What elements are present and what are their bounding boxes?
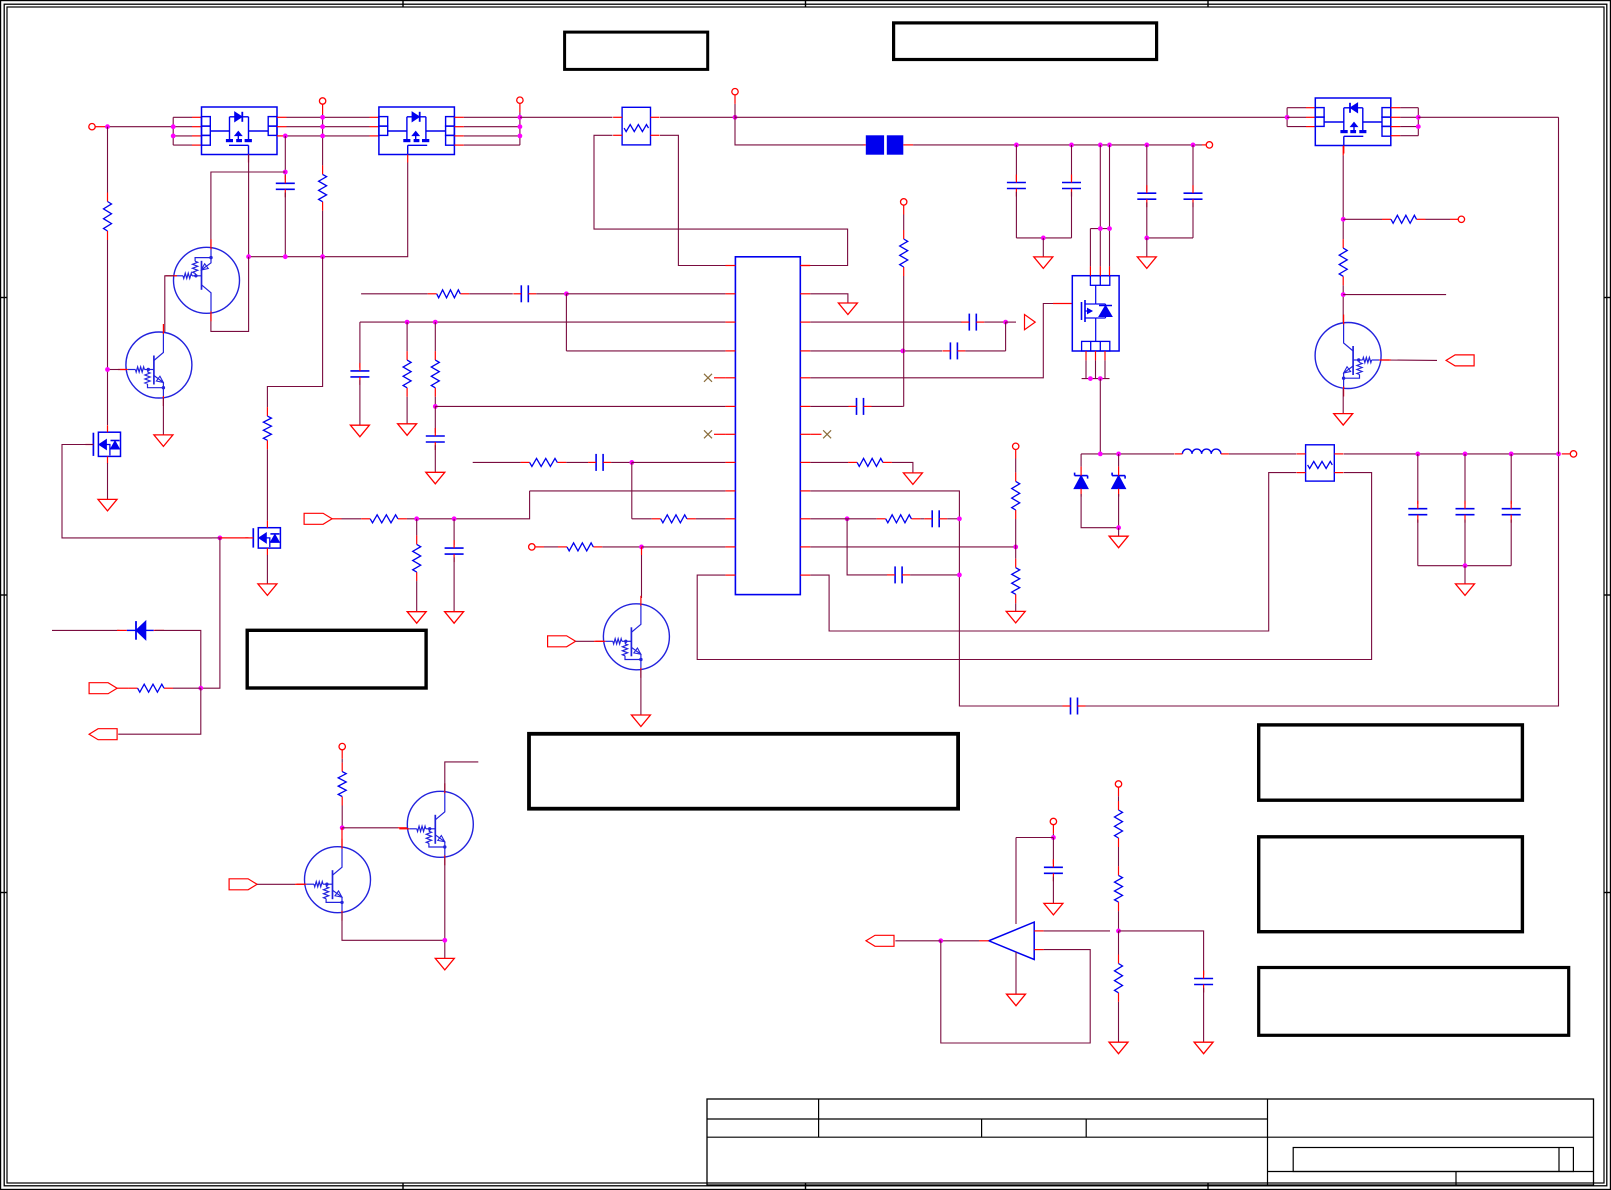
pin stub U1 L12 — [725, 574, 735, 576]
pin stub pkg2 R3 — [454, 135, 463, 137]
wire R19 right — [1426, 218, 1451, 220]
wire x903 mid — [903, 276, 905, 406]
ground R15 — [903, 473, 922, 485]
diode D1 — [117, 621, 164, 640]
wire R3 arrowlink — [1006, 321, 1016, 323]
junction row3 cap tap — [283, 134, 288, 139]
wire C7 gnd — [359, 380, 361, 425]
wire pkg3 right bracket — [1417, 108, 1419, 136]
junction comp out — [938, 938, 943, 943]
wire x903 upper — [903, 215, 905, 231]
wire R10 left — [632, 518, 652, 520]
wire pkg4 bot stub b — [1095, 360, 1097, 378]
capacitor C20 — [1044, 859, 1063, 881]
wire zener gnd stem — [1118, 528, 1120, 537]
pin stub pkg2 R2 — [454, 126, 463, 128]
ground Q6 — [1334, 414, 1353, 426]
junction node b — [1116, 452, 1121, 457]
wire pkg1 drain down — [248, 155, 250, 257]
junction capbus d — [1107, 143, 1112, 148]
ground Q5 — [631, 715, 650, 727]
junction pkg2r c — [518, 134, 523, 139]
wire input vertical lower — [107, 240, 109, 425]
capacitor C16 — [887, 566, 910, 583]
wire C20 gnd — [1052, 877, 1054, 904]
wire q6 base out — [1381, 359, 1437, 361]
pin stub U1 R7 — [800, 433, 810, 435]
wire L3 corner down — [359, 322, 361, 368]
wire C12 out — [965, 350, 1005, 352]
pin stub U1 R9 — [800, 490, 810, 492]
wire R7 top — [406, 322, 408, 351]
wire capgnd rail1 — [1016, 237, 1071, 239]
connector comp out — [866, 935, 894, 946]
junction L8 node — [629, 460, 634, 465]
pin stub Q6 base — [1381, 359, 1390, 361]
wire pkg4 top rail — [1090, 228, 1109, 230]
ground C21 — [1194, 1042, 1213, 1054]
junction pkg1r b — [320, 124, 325, 129]
wire pkg2 out row 4 — [464, 144, 520, 146]
wire comp nin — [1044, 930, 1110, 932]
wire pkg3 L row3 — [1287, 126, 1306, 128]
wire Q3 base — [257, 883, 295, 885]
capacitor C5 — [1184, 185, 1203, 207]
label box 5 (bottom right, empty) — [1259, 968, 1569, 1036]
wire comp cap drop — [1052, 838, 1054, 865]
wire EN to R11 — [342, 518, 362, 520]
resistor R18 — [1012, 559, 1020, 604]
wire node rail — [1081, 453, 1174, 455]
pin stub comp inv — [1034, 949, 1043, 951]
wire L2 to pin — [566, 293, 725, 295]
pin stub Q4 base — [398, 827, 407, 829]
pin stub Q5 base — [594, 640, 603, 642]
resistor R3 — [263, 407, 271, 449]
wire net L12 — [697, 473, 1371, 660]
pin stub U1 R3 — [800, 321, 810, 323]
wire C8 link — [434, 406, 436, 432]
wire vout cap rail — [1418, 565, 1511, 567]
junction R4 x903 — [901, 349, 906, 354]
wire comp vcc run — [1016, 837, 1053, 839]
wire pkg4 feed a — [1099, 145, 1101, 229]
pin stub FET2 gate — [220, 537, 249, 539]
junction node a — [1098, 452, 1103, 457]
ground comparator — [1007, 994, 1026, 1006]
wire pkg4 feed b — [1109, 145, 1111, 229]
pin stub Q1 base — [174, 275, 177, 277]
junction rail1 gnd — [1041, 236, 1046, 241]
wire net L8 — [473, 461, 521, 463]
wire capC4 top — [1146, 145, 1148, 191]
wire net L6 — [435, 405, 725, 407]
wire C1 bottom — [284, 193, 286, 257]
wire ind out — [1229, 453, 1296, 455]
wire rail1 stem — [1042, 238, 1044, 257]
pin stub pkg3 L1 — [1306, 107, 1315, 109]
junction vout a — [1415, 452, 1420, 457]
pin stub pkg2 L1 — [370, 116, 379, 118]
pin stub pkg3 L3 — [1306, 126, 1315, 128]
wire R12 top — [416, 519, 418, 536]
resistor R15 — [848, 458, 892, 466]
pin stub pkg2 R1 — [454, 116, 463, 118]
label box 1 (left mid, empty) — [247, 630, 426, 688]
junction pkg4 brail b — [1098, 376, 1103, 381]
pin stub pkg4 gate — [1053, 303, 1072, 305]
junction pkg4 rail a — [1098, 226, 1103, 231]
wire R10 branch down — [847, 519, 887, 575]
wire net L2 — [361, 293, 428, 295]
pin stub pkg1 L2 — [192, 126, 202, 128]
label box (top right, empty) — [894, 23, 1157, 60]
junction rail2 gnd — [1144, 236, 1149, 241]
pin stub U1 R11 — [800, 546, 810, 548]
resistor R23 — [1115, 955, 1123, 1002]
junction vout d — [1556, 452, 1561, 457]
pin stub pkg2 L2 — [370, 126, 379, 128]
junction capbus c — [1098, 143, 1103, 148]
comparator U2 — [989, 922, 1034, 959]
pkg4 internal mosfet — [1082, 285, 1113, 341]
wire bus to pkg3 — [735, 116, 1287, 118]
wire zener rail — [1081, 494, 1119, 528]
wire pkg3 R row2 — [1400, 116, 1418, 118]
connector Q6 base — [1446, 355, 1474, 366]
wire net L9 — [530, 490, 726, 492]
wire L8 down — [631, 462, 633, 518]
capacitor C13 — [849, 398, 872, 415]
wire net R9pin — [810, 491, 1062, 706]
resistor R1 — [104, 193, 112, 241]
dual P-MOSFET package Q10 — [1315, 98, 1391, 154]
junction gatebus b — [283, 254, 288, 259]
wire capC3 top — [1071, 145, 1073, 180]
ground vout caps — [1456, 584, 1475, 596]
wire pkg1-pkg2 row 1 — [287, 116, 370, 118]
connector Q3 base — [229, 879, 257, 890]
pin stub IC R1 — [800, 265, 810, 267]
junction pkg1 bracket a — [171, 124, 176, 129]
wire capC2 top — [1015, 145, 1017, 180]
wire vout gnd stem — [1464, 566, 1466, 584]
resistor R4 — [129, 684, 173, 692]
resistor R9 — [521, 458, 567, 466]
pin stub pkg1 L4 — [192, 144, 202, 146]
junction R10 node — [845, 516, 850, 521]
resistor R11 — [361, 515, 407, 523]
junction C1/Q1 node — [283, 170, 288, 175]
no-connect X L5 — [704, 374, 712, 382]
junction vout rail — [1463, 563, 1468, 568]
wire pkg3 R row4 — [1400, 135, 1418, 137]
junction R3 node — [1003, 320, 1008, 325]
wire net R11pin — [810, 546, 1015, 548]
capacitor C8 — [426, 428, 445, 450]
capacitor C21 — [1194, 971, 1213, 993]
pin stub U1 R5 — [800, 377, 810, 379]
wire gate node down — [201, 538, 220, 688]
dual P-MOSFET package Q1A — [202, 107, 278, 163]
junction pkg4 rail b — [1107, 226, 1112, 231]
junction capbus f — [1191, 143, 1196, 148]
junction q6 chain a — [1341, 217, 1346, 222]
pin stub pkg4 top c — [1109, 266, 1111, 275]
junction div2 mid — [1116, 929, 1121, 934]
pin stub U1 L5 — [725, 377, 735, 379]
junction pkg1r a — [320, 115, 325, 120]
junction gatebus a — [246, 254, 251, 259]
wire net R3 — [810, 321, 962, 323]
resistor R12 — [413, 535, 421, 581]
pkg4 bottom pinbox — [1082, 341, 1110, 351]
pin stub conn A — [117, 687, 129, 689]
junction pkg3r a — [1416, 115, 1421, 120]
pin stub U1 L11 — [725, 546, 735, 548]
wire R5 to dot — [341, 806, 343, 828]
wire L8 to pin — [632, 461, 726, 463]
pin stub U1 L10 — [725, 518, 735, 520]
wire R10pin — [810, 518, 876, 520]
wire pkg3 drain lower — [1342, 285, 1344, 322]
wire fuse sense left — [594, 135, 848, 265]
wire node to conn B — [118, 688, 201, 734]
resistor R14 — [900, 230, 908, 276]
offpage output pointer — [1025, 315, 1036, 330]
wire input vertical upper — [107, 127, 109, 193]
wire net L3 — [360, 321, 726, 323]
pin noconnect L7 wire — [714, 433, 725, 435]
label box 4 (right, empty) — [1259, 837, 1523, 932]
ground div2 — [1109, 1042, 1128, 1054]
ground zeners — [1109, 536, 1128, 548]
pin stub pkg3 R2 — [1391, 116, 1400, 118]
dual P-MOSFET package Q2A — [379, 107, 455, 163]
wire R15 link — [810, 461, 848, 463]
wire comp out to conn — [895, 940, 940, 942]
wire pkg4 bot stub c — [1104, 360, 1106, 378]
resistor R19 — [1382, 215, 1426, 223]
pin stub U1 R6 — [800, 405, 810, 407]
wire q6 stub right — [1343, 294, 1446, 296]
wire R9-C9 — [566, 461, 588, 463]
wire R2 bottom — [322, 211, 324, 257]
resistor R2 — [319, 165, 327, 210]
wire R12 gnd — [416, 581, 418, 612]
ground R2pin — [838, 303, 857, 315]
ground C7 — [350, 425, 369, 437]
wire mid chain vertical — [322, 114, 324, 165]
wire pkg3 R row1 — [1400, 107, 1418, 109]
wire zener1 drop — [1080, 454, 1082, 467]
label box 3 (right, empty) — [1259, 725, 1523, 800]
resistor R10 — [652, 515, 696, 523]
junction vin node — [733, 115, 738, 120]
pin stub U1 L2 — [725, 293, 735, 295]
resistor R8 — [431, 351, 439, 397]
wire C10 gnd — [453, 557, 455, 611]
capacitor C17 — [1408, 501, 1427, 523]
zener diode DZ1 — [1074, 467, 1088, 497]
wire Q5 collector — [641, 555, 643, 598]
wire comp gnd stem — [1015, 952, 1017, 994]
wire C19 bot — [1510, 520, 1512, 566]
pin stub pkg2 R4 — [454, 144, 463, 146]
wire diode to node — [155, 630, 201, 688]
terminal vout — [1562, 451, 1577, 457]
junction pkg1r c — [320, 134, 325, 139]
wire L11 to pin — [642, 546, 726, 548]
terminal vin — [732, 89, 738, 118]
wire pkg3 L row2 — [1287, 116, 1306, 118]
wire C6-dot — [536, 293, 566, 295]
pin stub pkg4 bot b — [1095, 351, 1097, 360]
wire R3 to FET2 — [266, 449, 268, 520]
resistor R16 — [877, 515, 921, 523]
wire R15 gnd — [892, 462, 913, 473]
terminal div2 top — [1115, 781, 1121, 801]
wire bus pkg2-fuse — [520, 116, 613, 118]
junction divider mid — [1013, 545, 1018, 550]
pin stub pkg3 L2 — [1306, 116, 1315, 118]
wire net R5pin — [810, 304, 1053, 378]
pin stub Q3 base — [295, 883, 305, 885]
junction emitter join — [442, 938, 447, 943]
resistor R6 — [428, 290, 470, 298]
ground R7 — [398, 424, 417, 436]
wire net L4 — [566, 350, 725, 352]
jumper J1 (solid) — [864, 135, 914, 154]
pin stub pkg1 R2 — [277, 126, 287, 128]
wire Q2 emitter — [162, 398, 164, 435]
wire R19 left — [1343, 218, 1382, 220]
ground FET1 — [98, 499, 117, 511]
pin stub U1 R12 — [800, 574, 810, 576]
wire C17 top — [1417, 454, 1419, 504]
junction pkg4 brail a — [1088, 376, 1093, 381]
connector Q5 base — [548, 636, 576, 647]
junction pkg3r b — [1416, 124, 1421, 129]
terminal pullup Q3 — [339, 743, 345, 762]
pin stub pkg3 R1 — [1391, 107, 1400, 109]
transistor Q5 (digital) — [595, 596, 669, 678]
wire div2 b — [1118, 911, 1120, 931]
junction comp vcc — [1051, 835, 1056, 840]
wire nin cap branch — [1119, 931, 1204, 975]
wire pkg1 left pin row 3 — [173, 135, 192, 137]
wire net R2 — [810, 294, 848, 303]
junction L2 node — [564, 291, 569, 296]
pin stub Q5 collector — [641, 547, 643, 555]
junction q6 chain b — [1341, 292, 1346, 297]
terminal R19 end — [1450, 216, 1465, 222]
pin stub pkg4 top b — [1099, 266, 1101, 275]
wire R8 bot — [434, 397, 436, 407]
junction zener gnd — [1116, 525, 1121, 530]
wire rail2 stem — [1146, 238, 1148, 257]
junction pkg3 in — [1285, 115, 1290, 120]
wire right bus — [1558, 117, 1560, 454]
pin stub pkg4 bot c — [1104, 351, 1106, 360]
junction R10 end — [957, 516, 962, 521]
pin stub U1 L7 — [725, 433, 735, 435]
junction Q2 base node — [105, 367, 110, 372]
wire pkg4 top stub a — [1089, 229, 1091, 267]
wire pkg4 out — [1099, 379, 1101, 454]
wire FET2 source gnd — [266, 555, 268, 584]
junction EN a — [414, 516, 419, 521]
wire divider mid — [1015, 519, 1017, 559]
ground FET2 — [258, 584, 277, 596]
junction pkg2r a — [518, 115, 523, 120]
pin stub pkg2 L3 — [370, 135, 379, 137]
wire cap bus — [913, 144, 1202, 146]
pin stub pkg3 R3 — [1391, 126, 1400, 128]
wire R3 down — [1005, 322, 1007, 351]
pin stub U1 L9 — [725, 490, 735, 492]
pin stub U1 L3 — [725, 321, 735, 323]
wire Q3 emitter — [342, 913, 445, 941]
wire pkg4 bottom rail — [1082, 378, 1110, 380]
junction capbus e — [1144, 143, 1149, 148]
wire C10 top — [453, 519, 455, 545]
wire R7 gnd — [406, 397, 408, 424]
N-MOSFET Q8 — [245, 521, 280, 555]
wire C11 out — [984, 321, 1005, 323]
pin stub pkg4 top a — [1089, 266, 1091, 275]
wire C13 out — [872, 405, 903, 407]
pin stub U1 R2 — [800, 293, 810, 295]
wire C15 out — [947, 518, 959, 520]
ground C10 — [445, 612, 464, 624]
wire capC2 bot — [1015, 192, 1017, 238]
wire Q4 collector — [445, 762, 479, 791]
pin stub Q3 collector — [341, 828, 343, 847]
wire capgnd rail2 — [1147, 237, 1193, 239]
zener diode DZ2 — [1112, 467, 1126, 497]
capacitor C19 — [1502, 501, 1521, 523]
capacitor C12 — [942, 342, 965, 359]
wire R16-C15 — [920, 518, 924, 520]
pin noconnect R7 wire — [810, 433, 821, 435]
junction capbus a — [1014, 143, 1019, 148]
wire pkg1 left pin row 2 — [173, 126, 192, 128]
pin stub pkg1 R1 — [277, 116, 287, 118]
wire fuse2 out — [1344, 453, 1559, 455]
pin stub pkg3 drain — [1342, 146, 1344, 155]
wire capC3 bot — [1071, 192, 1073, 238]
pin stub U1 L4 — [725, 350, 735, 352]
junction input node — [105, 124, 110, 129]
wire pkg1-pkg2 row 2 — [287, 126, 370, 128]
vertical MOSFET package Q9 box — [1072, 276, 1119, 351]
wire x903 corner — [902, 405, 905, 407]
wire pkg1 left pin row 1 — [173, 116, 192, 118]
pin stub pkg4 bot a — [1085, 351, 1087, 360]
terminal cap bus end — [1202, 142, 1213, 148]
ground divider — [1006, 611, 1025, 623]
wire comp vcc down — [1015, 838, 1017, 925]
wire capC5 top — [1192, 145, 1194, 191]
wire R11 on — [407, 491, 530, 519]
wire div2 a — [1118, 847, 1120, 866]
wire bus fuse-node — [660, 116, 735, 118]
junction vout c — [1509, 452, 1514, 457]
no-connect X L7 — [704, 430, 712, 438]
pin stub pkg1 L1 — [192, 116, 202, 118]
ground Q2 — [154, 435, 173, 447]
